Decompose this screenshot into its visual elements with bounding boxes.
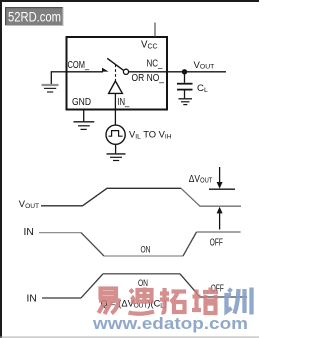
svg-text:52RD.com: 52RD.com [8,9,61,24]
svg-text:www.edatop.com: www.edatop.com [92,315,248,333]
svg-text:GND: GND [72,97,91,108]
svg-text:COM_: COM_ [68,60,90,71]
svg-text:ON: ON [141,245,151,255]
svg-text:IN: IN [24,227,34,238]
svg-text:IN_: IN_ [117,97,129,108]
svg-text:ON: ON [138,278,148,288]
svg-text:OR NO_: OR NO_ [132,73,165,84]
svg-text:NC_: NC_ [147,58,163,69]
svg-text:IN: IN [27,294,37,305]
svg-text:OFF: OFF [210,237,223,248]
